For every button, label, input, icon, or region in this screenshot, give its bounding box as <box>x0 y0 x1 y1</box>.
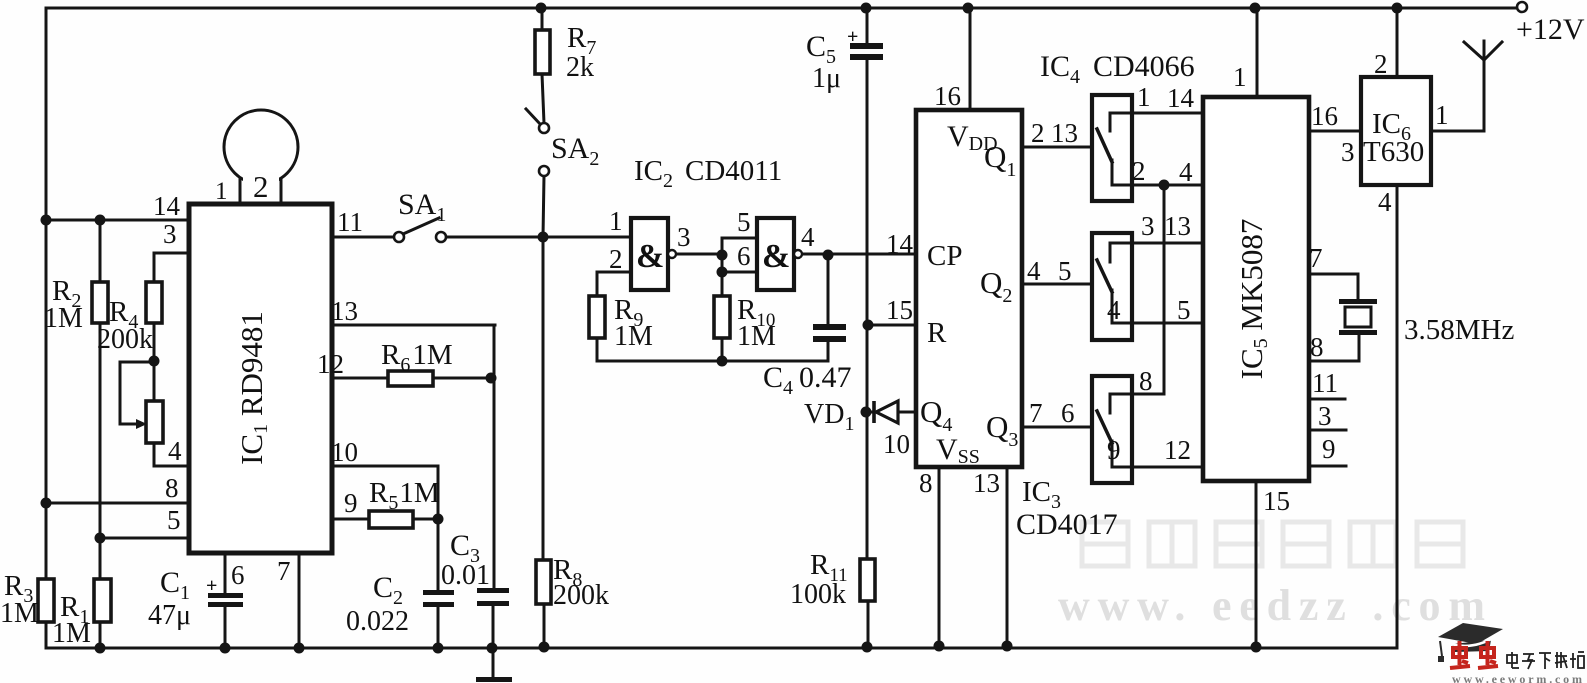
svg-text:1: 1 <box>1137 82 1151 112</box>
wire pin10 of IC1 down to R5 node <box>332 466 438 519</box>
wire gate2 pin6 <box>722 271 757 274</box>
wire pin5 of IC1 <box>100 537 189 540</box>
junction dot R4 wiper <box>149 356 160 367</box>
microphone BM <box>224 110 298 184</box>
wire switch1 pin1/14 to MK5087 <box>1110 112 1203 115</box>
wire pin15 of MK5087 to ground rail <box>1255 481 1258 648</box>
svg-text:5: 5 <box>1177 295 1191 325</box>
wire left rail upper <box>45 8 48 579</box>
svg-text:14: 14 <box>886 229 914 259</box>
svg-text:www. eedzz .com: www. eedzz .com <box>1058 581 1485 630</box>
wire SA1 to node <box>446 236 631 239</box>
svg-text:13: 13 <box>331 296 358 326</box>
switch SA1 contacts <box>394 232 404 242</box>
capacitor C4 plates <box>813 324 846 330</box>
junction dots top rail <box>536 3 547 14</box>
junction dot R5/C2 <box>433 514 444 525</box>
wire R pin15 of IC3 <box>868 324 916 327</box>
resistor R11 <box>860 559 875 601</box>
capacitor C1 plates <box>208 593 243 598</box>
svg-text:200k: 200k <box>97 324 153 355</box>
analog switch IC4c body <box>1092 376 1132 483</box>
wire Q1 pin2 of IC3 to switch1 <box>1022 146 1092 149</box>
wire pin8 of IC3 to ground <box>938 467 941 646</box>
svg-text:3: 3 <box>1141 211 1155 241</box>
svg-text:0.01: 0.01 <box>441 560 490 591</box>
svg-text:7: 7 <box>1029 398 1043 428</box>
svg-text:1M: 1M <box>0 598 39 629</box>
switch2 IC4 internals <box>1109 243 1112 262</box>
svg-text:1M: 1M <box>44 303 83 334</box>
wire switch2 pin3/13 to MK5087 <box>1110 242 1203 245</box>
wire left rail lower <box>45 622 48 648</box>
svg-text:1: 1 <box>1435 100 1449 130</box>
mic stem right <box>280 177 283 204</box>
svg-text:15: 15 <box>1263 486 1290 516</box>
logo chongchong glyph 2 <box>1478 641 1498 668</box>
svg-text:IC2CD4011: IC2CD4011 <box>634 155 782 192</box>
wire C3 column vertical <box>493 325 496 588</box>
junction dots gate network <box>717 250 728 261</box>
svg-text:11: 11 <box>337 207 363 237</box>
switch SA2 contacts <box>539 123 549 133</box>
resistor R4 <box>146 282 162 323</box>
svg-text:8: 8 <box>919 468 933 498</box>
svg-text:8: 8 <box>1139 366 1153 396</box>
wire pin2 of IC6 to top rail <box>1396 8 1399 77</box>
svg-text:7: 7 <box>277 556 291 586</box>
wire pin11 stub of MK5087 <box>1309 398 1345 401</box>
svg-text:5: 5 <box>167 505 181 535</box>
wire R5 to C2 node <box>413 518 438 521</box>
switch1 IC4 internals <box>1109 113 1112 131</box>
wire pin1 of IC6 to antenna <box>1431 130 1484 133</box>
transmitter ic IC6 T630 body <box>1361 77 1431 185</box>
counter ic IC3 CD4017 body <box>916 110 1022 467</box>
svg-text:15: 15 <box>886 295 913 325</box>
svg-text:+12V: +12V <box>1516 13 1585 46</box>
wire feedback line R9/R10/C4 <box>597 360 828 363</box>
svg-text:3: 3 <box>1341 137 1355 167</box>
op-amp ic IC1 RD9481 body <box>189 204 332 553</box>
svg-text:5: 5 <box>737 207 751 237</box>
svg-text:2: 2 <box>1031 118 1045 148</box>
resistor R5 <box>369 511 413 528</box>
svg-text:16: 16 <box>934 81 961 111</box>
wire R6 to C3 node <box>433 377 491 380</box>
wire C5/R11 column <box>866 8 869 43</box>
svg-text:CD4017: CD4017 <box>1016 508 1118 541</box>
wire Q3 pin7 of IC3 to switch3 <box>1022 426 1092 429</box>
wire pin14 of IC1 to left rail <box>46 219 189 222</box>
wire C4 to output node <box>827 342 830 361</box>
svg-text:2: 2 <box>609 244 623 274</box>
analog switch IC4b body <box>1092 233 1132 340</box>
potentiometer RP <box>146 401 163 443</box>
svg-text:3.58MHz: 3.58MHz <box>1404 314 1514 346</box>
svg-text:4: 4 <box>168 436 182 466</box>
svg-text:1M: 1M <box>614 321 653 352</box>
svg-text:1M: 1M <box>52 618 91 649</box>
logo cap board <box>1438 623 1503 662</box>
wire pin4 of IC6 to ground rail <box>1396 185 1399 648</box>
svg-text:C40.47: C40.47 <box>763 361 852 399</box>
wire pot bottom to pin4 of IC1 <box>154 443 189 466</box>
resistor R8 <box>536 560 551 604</box>
svg-text:3: 3 <box>677 222 691 252</box>
svg-text:2: 2 <box>253 169 269 204</box>
wire Q2 pin4 of IC3 to switch2 <box>1022 283 1092 286</box>
switch3 IC4 internals <box>1109 394 1112 413</box>
svg-text:1: 1 <box>215 178 228 205</box>
capacitor C2 plates <box>423 590 454 595</box>
wire pin16 of IC3 to top rail <box>969 8 972 110</box>
svg-text:8: 8 <box>1310 332 1324 362</box>
wire R9 bottom <box>596 338 599 361</box>
svg-text:13: 13 <box>973 468 1000 498</box>
svg-text:0.022: 0.022 <box>346 606 409 637</box>
wire SA2 node down to R8 <box>542 237 545 560</box>
resistor R9 <box>589 296 605 338</box>
wire pin11 of IC1 to SA1 <box>332 236 394 239</box>
wire pin7 of MK5087 to crystal <box>1309 274 1358 299</box>
watermark line1 <box>1082 522 1463 566</box>
svg-text:CP: CP <box>927 240 962 272</box>
crystal plates <box>1339 299 1377 304</box>
svg-text:6: 6 <box>231 560 245 590</box>
wire pin7 of IC1 to ground rail <box>298 553 301 648</box>
svg-text:4: 4 <box>1107 295 1121 325</box>
wire switch2 pin4/5 to MK5087 <box>1112 322 1203 325</box>
logo chongchong glyph 1 <box>1450 641 1470 668</box>
svg-text:2k: 2k <box>566 52 594 83</box>
junction dots bottom rail <box>95 643 106 654</box>
svg-text:2: 2 <box>1374 49 1388 79</box>
svg-text:12: 12 <box>1164 435 1191 465</box>
junction dots left rail <box>41 215 52 226</box>
resistor R7 <box>535 30 550 74</box>
wire potentiometer wiper loop <box>120 362 154 424</box>
svg-text:7: 7 <box>1309 243 1323 273</box>
nand gate U2B body <box>757 218 794 290</box>
svg-text:3: 3 <box>1318 401 1332 431</box>
terminal +12V <box>1517 2 1527 12</box>
antenna <box>1483 60 1486 131</box>
svg-text:&: & <box>762 238 790 275</box>
wire gate1 output to gate2 inputs <box>676 253 722 256</box>
junction dots C5 column <box>863 320 874 331</box>
svg-text:4: 4 <box>801 222 815 252</box>
svg-text:10: 10 <box>883 429 910 459</box>
logo cap tassel <box>1440 641 1442 656</box>
mic stem left <box>239 177 242 204</box>
dialer ic IC5 MK5087 body <box>1203 97 1309 481</box>
junction dot switch1 output <box>1159 180 1170 191</box>
wire switch1 pin2/4 to MK5087 <box>1112 184 1203 187</box>
svg-text:13: 13 <box>1051 118 1078 148</box>
svg-text:&: & <box>636 238 664 275</box>
svg-text:+: + <box>847 26 858 48</box>
wire diode VD1 to pin10 of IC3 <box>866 411 875 414</box>
svg-text:10: 10 <box>331 437 358 467</box>
svg-text:5: 5 <box>1058 256 1072 286</box>
svg-text:9: 9 <box>344 488 358 518</box>
svg-text:6: 6 <box>1061 398 1075 428</box>
svg-text:3: 3 <box>163 219 177 249</box>
resistor R10 <box>714 296 730 338</box>
analog switch IC4a body <box>1092 95 1132 201</box>
svg-text:R: R <box>927 317 947 349</box>
svg-text:T630: T630 <box>1363 136 1424 168</box>
svg-text:11: 11 <box>1312 368 1338 398</box>
resistor R2 <box>92 282 108 323</box>
svg-text:4: 4 <box>1027 256 1041 286</box>
wire gate2 output to CP pin14 of IC3 <box>802 253 916 256</box>
wire pin1 of MK5087 to top rail <box>1256 8 1259 97</box>
switch SA1 arm <box>403 218 439 234</box>
svg-text:9: 9 <box>1107 435 1121 465</box>
svg-text:IC5 MK5087: IC5 MK5087 <box>1234 219 1272 380</box>
switch SA2 arm <box>526 109 541 125</box>
svg-text:R61M: R61M <box>381 339 453 376</box>
svg-text:16: 16 <box>1311 101 1338 131</box>
wire pin13 of IC3 to ground <box>1006 467 1009 646</box>
svg-text:14: 14 <box>1167 83 1195 113</box>
crystal B 3.58MHz body <box>1345 307 1371 327</box>
wire top +12V rail <box>46 7 1517 10</box>
wire R7/SA2 column <box>541 8 544 30</box>
wire switch1 to switch3 link <box>1163 185 1166 394</box>
svg-text:8: 8 <box>165 473 179 503</box>
wire pin9 stub of MK5087 <box>1309 465 1346 468</box>
capacitor C3 plates <box>477 588 509 593</box>
svg-text:9: 9 <box>1322 434 1336 464</box>
ground symbol bar <box>476 677 512 682</box>
wire pin13 of IC1 <box>332 324 495 327</box>
wire C2 column vertical <box>437 519 440 590</box>
wire R4 to potentiometer <box>153 323 156 401</box>
wire pin12 of IC1 to R6 <box>332 377 388 380</box>
svg-text:100k: 100k <box>790 579 846 610</box>
resistor R6 <box>388 371 433 386</box>
svg-text:4: 4 <box>1378 187 1392 217</box>
ground symbol stem <box>492 648 495 678</box>
wire pin6 of IC1 to C1 <box>224 553 227 593</box>
diode VD1 <box>872 401 876 423</box>
svg-text:1M: 1M <box>737 321 776 352</box>
wire pin8 of IC1 to left rail <box>46 502 189 505</box>
wire switch3 pin9/12 to MK5087 <box>1112 466 1203 469</box>
wire pin8 of MK5087 to crystal <box>1309 335 1359 361</box>
wire pin16 of MK5087 to IC6 <box>1309 130 1361 133</box>
wire switch3 pin8 up to link <box>1110 393 1164 396</box>
wire gate2 pin5 <box>722 237 757 240</box>
wire bottom ground rail <box>46 647 1397 650</box>
junction dot R6/C3 <box>486 373 497 384</box>
nand gate U2A body <box>631 218 668 290</box>
svg-text:+: + <box>206 575 217 597</box>
svg-text:R51M: R51M <box>369 477 440 514</box>
logo text dianzi xiazaizhan <box>1507 652 1584 669</box>
wire pin3 stub of MK5087 <box>1309 429 1346 432</box>
resistor R3 <box>38 579 54 622</box>
svg-text:1μ: 1μ <box>812 63 841 94</box>
wire pin9 of IC1 to R5 <box>332 518 369 521</box>
svg-text:12: 12 <box>317 349 344 379</box>
wire pin3 of IC1 to R4 <box>154 253 189 282</box>
svg-text:47μ: 47μ <box>148 600 191 631</box>
svg-text:1: 1 <box>1233 62 1247 92</box>
svg-text:IC1 RD9481: IC1 RD9481 <box>234 311 272 465</box>
junction dots R2 column <box>95 215 106 226</box>
wire R10 bottom <box>721 338 724 361</box>
svg-text:200k: 200k <box>553 580 609 611</box>
junction dot SA2 node <box>538 232 549 243</box>
wire gate1 pin2 to R9 <box>597 272 631 296</box>
svg-text:4: 4 <box>1179 157 1193 187</box>
wire R2 column vertical <box>99 220 102 282</box>
svg-text:14: 14 <box>153 191 181 221</box>
svg-text:13: 13 <box>1164 211 1191 241</box>
svg-text:6: 6 <box>737 241 751 271</box>
svg-text:2: 2 <box>1132 156 1146 186</box>
svg-text:1: 1 <box>609 206 623 236</box>
capacitor C5 plates <box>850 43 883 49</box>
resistor R1 <box>94 579 111 622</box>
